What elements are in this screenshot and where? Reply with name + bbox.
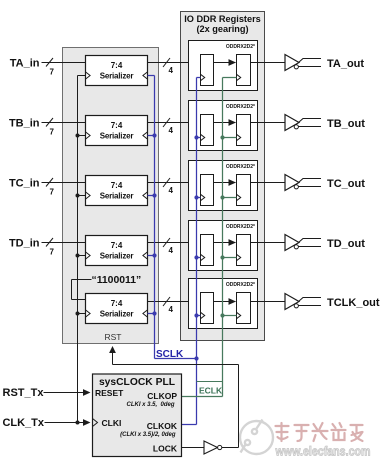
svg-text:CLKI x 3.5, 0deg: CLKI x 3.5, 0deg — [126, 402, 174, 408]
svg-text:7: 7 — [50, 128, 55, 137]
svg-text:ODDRX2D2*: ODDRX2D2* — [226, 224, 255, 230]
svg-text:RST: RST — [105, 332, 122, 342]
svg-text:“1100011”: “1100011” — [92, 275, 142, 286]
svg-text:TB_out: TB_out — [327, 118, 365, 130]
svg-text:7:4: 7:4 — [111, 121, 123, 130]
svg-text:Serializer: Serializer — [100, 310, 134, 319]
svg-text:4: 4 — [169, 246, 174, 255]
svg-text:CLKOP: CLKOP — [147, 391, 177, 401]
svg-text:4: 4 — [169, 66, 174, 75]
svg-text:7:4: 7:4 — [111, 299, 123, 308]
svg-text:7:4: 7:4 — [111, 181, 123, 190]
svg-text:(2x gearing): (2x gearing) — [196, 24, 248, 34]
svg-text:TD_in: TD_in — [9, 238, 40, 250]
svg-text:RST_Tx: RST_Tx — [3, 387, 45, 399]
svg-text:7:4: 7:4 — [111, 241, 123, 250]
svg-text:sysCLOCK PLL: sysCLOCK PLL — [99, 377, 175, 388]
svg-text:CLKI: CLKI — [102, 418, 122, 428]
svg-text:Serializer: Serializer — [100, 192, 134, 201]
svg-text:ODDRX2D2*: ODDRX2D2* — [226, 164, 255, 170]
svg-text:TC_out: TC_out — [327, 178, 365, 190]
svg-text:7: 7 — [50, 248, 55, 257]
svg-text:SCLK: SCLK — [156, 349, 184, 360]
svg-text:7: 7 — [50, 188, 55, 197]
svg-text:4: 4 — [169, 305, 174, 314]
svg-text:4: 4 — [169, 126, 174, 135]
svg-text:(CLKI x 3.5)/2, 0deg: (CLKI x 3.5)/2, 0deg — [120, 432, 176, 438]
svg-text:TCLK_out: TCLK_out — [327, 297, 380, 309]
svg-text:TC_in: TC_in — [9, 178, 40, 190]
svg-text:LOCK: LOCK — [153, 444, 178, 454]
svg-text:ODDRX2D2*: ODDRX2D2* — [226, 282, 255, 288]
svg-text:4: 4 — [169, 186, 174, 195]
svg-text:ODDRX2D2*: ODDRX2D2* — [226, 104, 255, 110]
svg-text:TB_in: TB_in — [9, 118, 40, 130]
svg-text:7:4: 7:4 — [111, 61, 123, 70]
svg-text:TA_in: TA_in — [10, 58, 40, 70]
svg-text:CLK_Tx: CLK_Tx — [2, 417, 44, 429]
svg-text:Serializer: Serializer — [100, 132, 134, 141]
svg-text:TD_out: TD_out — [327, 238, 365, 250]
svg-text:ODDRX2D2*: ODDRX2D2* — [226, 44, 255, 50]
svg-text:ECLK: ECLK — [199, 386, 223, 396]
svg-text:Serializer: Serializer — [100, 252, 134, 261]
svg-text:www.elecfans.com: www.elecfans.com — [275, 444, 371, 459]
svg-text:CLKOK: CLKOK — [147, 421, 178, 431]
svg-text:Serializer: Serializer — [100, 72, 134, 81]
svg-text:RESET: RESET — [95, 388, 124, 398]
svg-text:TA_out: TA_out — [327, 58, 364, 70]
svg-text:7: 7 — [50, 68, 55, 77]
svg-text:IO DDR Registers: IO DDR Registers — [184, 14, 261, 24]
